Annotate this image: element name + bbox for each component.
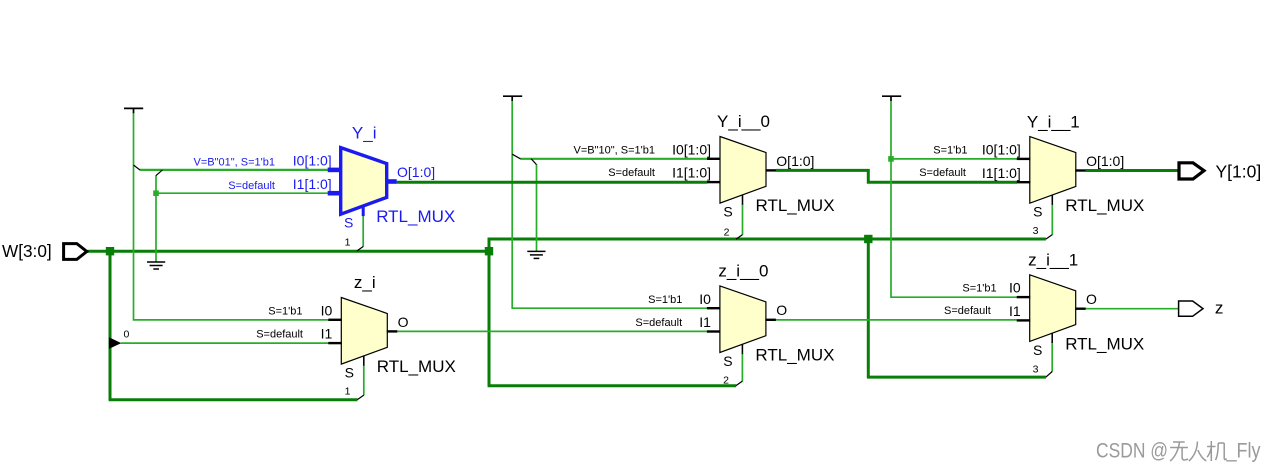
mux z_i body <box>341 298 387 365</box>
label z_i__1 pin S <box>1033 342 1042 358</box>
label z_i pin S <box>345 365 354 381</box>
label net value S=default (z_i__0 I1) <box>635 317 682 329</box>
mux z_i__1 body <box>1030 275 1076 342</box>
svg-text:S=default: S=default <box>228 180 275 192</box>
wire net z from z_i__1 O to output port <box>1086 308 1180 310</box>
label z_i pin I1 <box>321 326 333 342</box>
svg-text:RTL_MUX: RTL_MUX <box>755 345 834 364</box>
label Y_i title <box>352 123 377 142</box>
mux Y_i__0 pin stubs <box>707 159 776 205</box>
label Y_i__0 pin I0 <box>672 141 711 157</box>
wire jog z_i__1 S to bus <box>1046 372 1052 378</box>
svg-text:S=default: S=default <box>919 167 966 179</box>
label net value S=default (Y_i I1) <box>228 180 275 192</box>
svg-text:S: S <box>723 353 732 369</box>
svg-text:I0[1:0]: I0[1:0] <box>293 153 332 169</box>
wire W[3:0] bus from input port <box>88 250 490 253</box>
wire net S=default from z_i O to z_i__0 I1 <box>397 330 707 332</box>
svg-text:z: z <box>1215 299 1224 318</box>
svg-text:V=B"10", S=1'b1: V=B"10", S=1'b1 <box>574 145 655 157</box>
svg-text:Y_i: Y_i <box>352 123 377 142</box>
label net value S=1'b1 (Y_i__1 I0) <box>933 145 967 157</box>
wire jog Y_i S to bus <box>357 247 363 252</box>
svg-text:3: 3 <box>1033 225 1039 237</box>
wire bus vertical x=489 <box>488 251 491 386</box>
mux Y_i__1 body <box>1030 137 1076 204</box>
mux z_i__0 body <box>720 286 766 353</box>
watermark CSDN @无人机_Fly <box>1096 440 1261 463</box>
svg-text:S: S <box>1033 204 1042 220</box>
svg-text:z_i__0: z_i__0 <box>718 262 768 281</box>
svg-text:O: O <box>1086 291 1097 307</box>
label net value S=default (z_i__1 I1) <box>944 305 991 317</box>
port z output <box>1179 299 1224 318</box>
label Y_i__0 title <box>717 112 770 131</box>
svg-text:W[3:0]: W[3:0] <box>2 241 52 261</box>
wire W bus vertical x=110 <box>109 251 112 400</box>
wire bus to z_i S (y=400) <box>109 398 358 401</box>
svg-text:0: 0 <box>124 328 130 340</box>
svg-text:O[1:0]: O[1:0] <box>397 164 435 180</box>
svg-text:RTL_MUX: RTL_MUX <box>376 207 455 226</box>
svg-text:z_i: z_i <box>354 273 376 292</box>
ground G2 <box>527 251 545 258</box>
svg-text:S=1'b1: S=1'b1 <box>962 282 996 294</box>
svg-text:S: S <box>1033 342 1042 358</box>
label z_i pin I0 <box>321 302 333 318</box>
wire from constant T2 down to z_i__0 I0 (S=1'b1) <box>512 101 707 308</box>
wire net S=default to Y_i I1 <box>156 192 328 194</box>
label net value S=1'b1 (z_i I0) <box>268 306 302 318</box>
label z_i pin O <box>398 314 409 330</box>
tap arrow W[0] with triangle <box>109 337 121 349</box>
wire jog Y_i__1 S to bus <box>1046 235 1052 240</box>
label net value V=B"10", S=1'b1 (Y_i__0 I0) <box>574 145 655 157</box>
svg-text:S: S <box>344 215 353 231</box>
wire bus to z_i__1 S <box>867 376 1046 379</box>
svg-text:I0[1:0]: I0[1:0] <box>672 141 711 157</box>
wire from constant T1 down to z_i I0 (S=1'b1) <box>134 113 329 320</box>
wire net S=default from Y_i O to Y_i__0 I1 <box>397 181 708 184</box>
power symbol T2 (constant 1) <box>503 96 522 101</box>
svg-text:V=B"01", S=1'b1: V=B"01", S=1'b1 <box>194 156 275 168</box>
wire Y_i__0 S select <box>742 204 744 235</box>
label bit index 3 at Y_i__1 S <box>1033 225 1039 237</box>
svg-text:3: 3 <box>1033 364 1039 376</box>
svg-text:S=1'b1: S=1'b1 <box>268 306 302 318</box>
label z_i__1 pin O <box>1086 291 1097 307</box>
wire net V=B"01",S=1'b1 to Y_i I0 <box>140 169 329 171</box>
port Y[1:0] output <box>1179 162 1261 182</box>
svg-text:I1[1:0]: I1[1:0] <box>293 176 332 192</box>
port W[3:0] input <box>2 241 87 261</box>
svg-text:RTL_MUX: RTL_MUX <box>377 357 456 376</box>
svg-text:S: S <box>345 365 354 381</box>
label z_i__1 pin I0 <box>1009 280 1021 296</box>
wire jog net C to V3 <box>531 159 536 165</box>
svg-text:I0: I0 <box>1009 280 1021 296</box>
junction on bus y=239 at x=868 <box>864 235 872 243</box>
power symbol T3 (constant 1) <box>882 96 901 101</box>
label Y_i pin S <box>344 215 353 231</box>
wire W bus segment y=239 <box>488 238 1046 241</box>
label bit index 2 at z_i__0 S <box>723 374 729 386</box>
svg-text:S=default: S=default <box>635 317 682 329</box>
mux Y_i body <box>341 148 387 215</box>
wire jog T2 to net C <box>512 154 520 159</box>
label z_i__0 pin O <box>776 302 787 318</box>
wire net W[0] tap to z_i I1 (S=default) <box>121 342 329 344</box>
label Y_i pin I1 <box>293 176 332 192</box>
wire from constant T3 down to z_i__1 I0 (S=1'b1) <box>891 101 1017 297</box>
wire jog V2 top to net A <box>156 170 162 176</box>
svg-text:S=1'b1: S=1'b1 <box>648 294 682 306</box>
wire jog z_i S to bus <box>357 395 363 400</box>
svg-text:_Fly: _Fly <box>1226 440 1261 463</box>
wire net V=B"10",S=1'b1 to Y_i__0 I0 <box>520 158 707 160</box>
svg-text:S=default: S=default <box>256 329 303 341</box>
wire ground branch vertical x=156 <box>155 175 157 262</box>
wire Y_i S select <box>362 216 364 247</box>
wire jog T1 to net A <box>134 165 140 170</box>
svg-text:CSDN @: CSDN @ <box>1096 440 1168 463</box>
label Y_i__0 pin S <box>723 204 732 220</box>
junction on W bus at x=489 <box>485 247 493 255</box>
svg-text:2: 2 <box>723 374 729 386</box>
mux z_i__1 pin stubs <box>1017 297 1086 343</box>
label Y_i__0 pin I1 <box>672 165 711 181</box>
label Y_i__1 title <box>1027 112 1080 131</box>
svg-text:RTL_MUX: RTL_MUX <box>756 196 835 215</box>
wire W bus riser at x=489 <box>488 238 491 253</box>
junction net S=default at x=156 <box>153 190 159 196</box>
svg-text:1: 1 <box>345 385 351 397</box>
label bit index 3 at z_i__1 S <box>1033 364 1039 376</box>
junction net S=1'b1 at x=891 <box>888 156 894 162</box>
svg-text:O[1:0]: O[1:0] <box>776 153 814 169</box>
wire z_i S select <box>363 365 365 395</box>
wire bus vertical x=868 <box>867 239 870 377</box>
svg-text:I0[1:0]: I0[1:0] <box>982 142 1021 158</box>
svg-text:Y_i__1: Y_i__1 <box>1027 112 1080 131</box>
svg-text:S=default: S=default <box>944 305 991 317</box>
svg-text:S=default: S=default <box>608 167 655 179</box>
svg-text:2: 2 <box>724 227 730 239</box>
svg-text:O[1:0]: O[1:0] <box>1086 153 1124 169</box>
label Y_i__1 pin I0 <box>982 142 1021 158</box>
svg-text:I1[1:0]: I1[1:0] <box>982 165 1021 181</box>
mux Y_i__1 pin stubs <box>1017 159 1086 205</box>
label Y_i type RTL_MUX <box>376 207 455 226</box>
label net value V=B"01", S=1'b1 (Y_i I0) <box>194 156 275 168</box>
svg-text:I1: I1 <box>1009 303 1021 319</box>
label z_i type RTL_MUX <box>377 357 456 376</box>
svg-text:1: 1 <box>345 237 351 249</box>
mux Y_i pin stubs <box>328 170 397 216</box>
svg-text:O: O <box>776 302 787 318</box>
wire net S=default from Y_i__0 O to Y_i__1 I1 <box>776 170 1017 182</box>
label z_i__0 title <box>718 262 768 281</box>
label bit index 1 at Y_i S <box>345 237 351 249</box>
wire ground branch vertical x=536.5 <box>536 164 538 251</box>
label net value S=default (Y_i__0 I1) <box>608 167 655 179</box>
label net value S=1'b1 (z_i__1 I0) <box>962 282 996 294</box>
label Y_i__0 type RTL_MUX <box>756 196 835 215</box>
svg-text:S=1'b1: S=1'b1 <box>933 145 967 157</box>
mux Y_i__0 body <box>720 137 766 204</box>
wire z_i__1 S select <box>1051 343 1053 372</box>
label z_i__0 pin S <box>723 353 732 369</box>
power symbol T1 (constant 1) <box>124 108 143 113</box>
label Y_i__1 pin I1 <box>982 165 1021 181</box>
label z_i__1 title <box>1028 251 1078 270</box>
svg-text:I1[1:0]: I1[1:0] <box>672 165 711 181</box>
label net value S=1'b1 (z_i__0 I0) <box>648 294 682 306</box>
svg-text:I1: I1 <box>321 326 333 342</box>
wire bus to z_i__0 S <box>488 384 737 387</box>
label Y_i__1 pin O <box>1086 153 1124 169</box>
label bit index 1 at z_i S <box>345 385 351 397</box>
svg-text:I0: I0 <box>699 291 711 307</box>
wire jog z_i__0 S to bus <box>736 381 742 386</box>
wire net S=1'b1 to Y_i__1 I0 <box>891 158 1017 160</box>
ground G1 <box>147 262 165 269</box>
label z_i__1 pin I1 <box>1009 303 1021 319</box>
label Y_i__1 pin S <box>1033 204 1042 220</box>
label bit index 2 at Y_i__0 S <box>724 227 730 239</box>
junction on W bus at x=110 <box>106 247 114 255</box>
label Y_i pin O <box>397 164 435 180</box>
label Y_i__0 pin O <box>776 153 814 169</box>
svg-text:I0: I0 <box>321 302 333 318</box>
wire net S=default from z_i__0 O to z_i__1 I1 <box>776 319 1017 321</box>
svg-text:RTL_MUX: RTL_MUX <box>1065 334 1144 353</box>
label z_i__0 type RTL_MUX <box>755 345 834 364</box>
label z_i__1 type RTL_MUX <box>1065 334 1144 353</box>
mux z_i__0 pin stubs <box>707 308 776 354</box>
label net value S=default (Y_i__1 I1) <box>919 167 966 179</box>
label net value S=default (z_i I1) <box>256 329 303 341</box>
label Y_i pin I0 <box>293 153 332 169</box>
svg-text:Y_i__0: Y_i__0 <box>717 112 770 131</box>
mux z_i pin stubs <box>328 320 397 366</box>
svg-text:O: O <box>398 314 409 330</box>
svg-text:I1: I1 <box>699 314 711 330</box>
label z_i__0 pin I1 <box>699 314 711 330</box>
svg-text:S: S <box>723 204 732 220</box>
label z_i__0 pin I0 <box>699 291 711 307</box>
svg-text:z_i__1: z_i__1 <box>1028 251 1078 270</box>
label z_i title <box>354 273 376 292</box>
label Y_i__1 type RTL_MUX <box>1065 196 1144 215</box>
svg-text:Y[1:0]: Y[1:0] <box>1216 162 1262 182</box>
wire net Y[1:0] from Y_i__1 O to output port <box>1086 169 1179 172</box>
svg-text:RTL_MUX: RTL_MUX <box>1065 196 1144 215</box>
wire Y_i__1 S select <box>1051 204 1053 235</box>
wire jog Y_i__0 S to bus <box>736 235 742 240</box>
label bit index 0 at W tap <box>124 328 130 340</box>
wire z_i__0 S select <box>741 354 743 382</box>
